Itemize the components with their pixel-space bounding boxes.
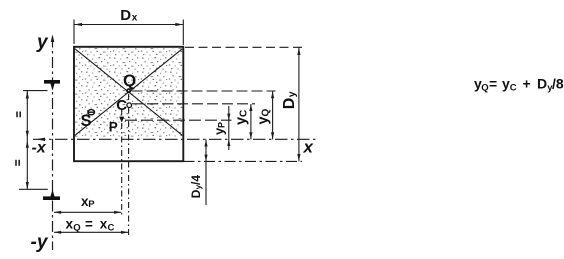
svg-text:Q: Q [261,109,272,117]
svg-text:y: y [36,32,49,53]
svg-text:y: y [286,91,298,97]
svg-text:x: x [303,138,315,157]
svg-text:P: P [88,199,95,210]
svg-text:P: P [217,122,227,128]
svg-text:-y: -y [31,232,49,253]
svg-text:C: C [239,110,250,117]
svg-text:Q: Q [123,71,136,90]
svg-text:C: C [510,82,517,93]
svg-text:P: P [109,120,118,135]
svg-text:y: y [233,117,249,125]
svg-text:x: x [66,217,74,232]
svg-text:Q: Q [73,222,80,233]
svg-text:Q: Q [481,82,488,93]
svg-text:/8: /8 [552,76,564,92]
svg-text:D: D [120,7,131,24]
svg-text:C: C [116,97,127,114]
svg-text:D: D [281,98,298,110]
svg-text:x: x [132,13,138,24]
svg-text:=: = [489,76,497,92]
svg-text:D: D [189,189,203,198]
svg-text:=: = [85,217,93,232]
svg-text:y: y [502,76,510,92]
svg-text:D: D [537,76,547,92]
svg-text:y: y [255,116,271,124]
svg-text:+: + [523,76,531,92]
svg-text:C: C [108,222,115,233]
svg-text:-x: -x [32,140,47,157]
svg-text:/4: /4 [189,175,203,185]
